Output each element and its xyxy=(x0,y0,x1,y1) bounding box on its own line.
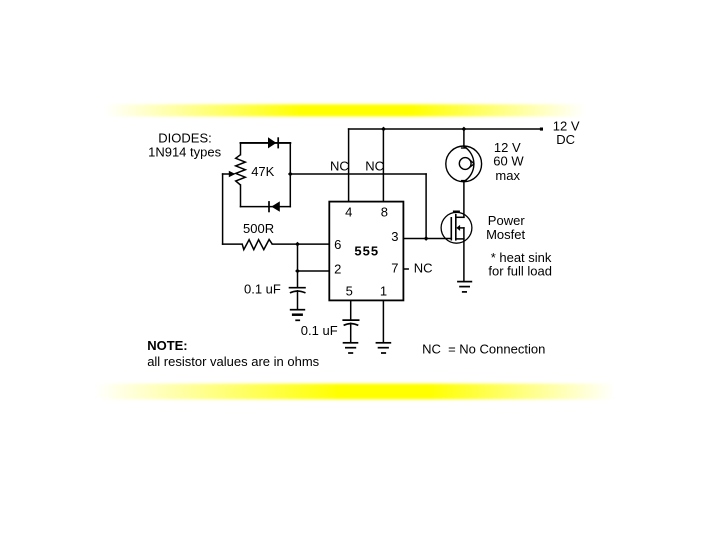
MOSFET drain dash xyxy=(453,211,460,213)
svg-text:4: 4 xyxy=(345,205,352,220)
wire: pin 2 horizontal xyxy=(298,270,330,272)
transistor Q1 power MOSFET xyxy=(441,212,472,243)
wire: pin 7 stub xyxy=(403,268,408,270)
svg-text:for full load: for full load xyxy=(488,263,552,278)
svg-text:3: 3 xyxy=(391,229,398,244)
wire: wiper down to 500R xyxy=(222,174,224,244)
wire: node to pin 2 vertical xyxy=(297,244,299,271)
lamp filament bulb xyxy=(459,158,471,170)
potentiometer R1 47K zigzag body xyxy=(236,155,246,185)
svg-text:Power: Power xyxy=(488,213,526,228)
top yellow divider bar xyxy=(105,104,585,116)
lamp LP1 outer envelope xyxy=(446,146,482,182)
junction dot: pin8/rail xyxy=(381,127,386,132)
wire: MOSFET source internal xyxy=(456,238,464,240)
svg-text:DC: DC xyxy=(556,132,575,147)
svg-text:NOTE:: NOTE: xyxy=(147,338,187,353)
wire: pin 5 down to C2 xyxy=(350,300,352,319)
svg-text:6: 6 xyxy=(334,237,341,252)
svg-text:0.1 uF: 0.1 uF xyxy=(301,323,338,338)
svg-text:7: 7 xyxy=(391,261,398,276)
terminal dot: 12V DC end xyxy=(540,128,543,131)
svg-text:NC: NC xyxy=(414,261,433,276)
capacitor C2 0.1uF plates xyxy=(342,320,359,325)
junction dot: lamp/rail xyxy=(462,127,467,132)
svg-text:500R: 500R xyxy=(243,221,274,236)
svg-text:max: max xyxy=(495,168,520,183)
gate bar xyxy=(450,217,452,241)
lamp inner arc xyxy=(464,146,474,181)
wire: pot bottom horizontal xyxy=(241,206,291,208)
IC U1 555 body xyxy=(329,202,403,301)
svg-text:0.1 uF: 0.1 uF xyxy=(244,281,281,296)
svg-text:1N914 types: 1N914 types xyxy=(148,144,221,159)
svg-text:2: 2 xyxy=(334,261,341,276)
wire: pot top horizontal xyxy=(241,142,291,144)
svg-text:NC = No Connection: NC = No Connection xyxy=(422,341,545,356)
wire: pot bottom lead xyxy=(240,185,242,207)
wire: 500R right to pin 6 xyxy=(272,243,329,245)
wire: C1 bottom lead xyxy=(297,291,299,310)
diode D2 (bottom, 1N914) xyxy=(269,201,280,212)
wire: wiper stub xyxy=(223,173,229,175)
potentiometer wiper arrow xyxy=(229,171,236,177)
bottom yellow divider bar xyxy=(95,384,615,400)
junction dot: pin6 node xyxy=(295,242,300,247)
junction dot: pin3/gate node xyxy=(424,236,429,241)
wire: lamp bottom to MOSFET drain xyxy=(463,182,465,218)
svg-text:5: 5 xyxy=(346,284,353,299)
wire: diodes right vertical xyxy=(289,143,291,207)
wire: wiper corner to 500R left xyxy=(223,243,243,245)
wire: node down to C1 xyxy=(297,271,299,287)
wire: rail to lamp top xyxy=(463,129,465,147)
diode D1 (top, 1N914) xyxy=(268,137,278,148)
svg-text:555: 555 xyxy=(354,244,379,259)
wire: C2 bottom lead xyxy=(350,323,352,342)
capacitor C1 0.1uF plates xyxy=(289,288,306,293)
svg-text:NC: NC xyxy=(365,158,384,173)
lamp terminal ticks xyxy=(461,147,467,149)
junction dot: pin2 node xyxy=(295,269,300,274)
svg-text:NC: NC xyxy=(330,158,349,173)
wire: pot/diodes node to gate column xyxy=(290,173,426,175)
wire: pot top lead xyxy=(240,143,242,155)
svg-text:47K: 47K xyxy=(251,164,274,179)
wire: pin 3 to MOSFET gate xyxy=(403,238,451,240)
MOSFET body arrow xyxy=(456,225,460,231)
wire: MOSFET drain internal xyxy=(456,216,464,218)
wire: pin 4 to rail xyxy=(348,129,350,202)
wire: MOSFET source vertical xyxy=(463,228,465,282)
svg-text:8: 8 xyxy=(381,205,388,220)
wire: pin 8 to rail xyxy=(382,129,384,202)
ground for pin 1 xyxy=(376,343,392,353)
channel bar xyxy=(455,214,457,241)
ground for C1 xyxy=(290,310,305,321)
svg-text:60 W: 60 W xyxy=(493,154,524,169)
wire: +12V top rail xyxy=(349,128,541,130)
svg-text:all resistor values are in ohm: all resistor values are in ohms xyxy=(147,354,319,369)
svg-text:1: 1 xyxy=(380,284,387,299)
resistor 500R zigzag body xyxy=(242,240,272,250)
ground for MOSFET source xyxy=(457,282,472,292)
junction dot: diodes/pot right node xyxy=(288,172,293,177)
ground for C2 xyxy=(343,343,359,353)
wire: MOSFET source arrow line xyxy=(459,227,464,229)
svg-text:Mosfet: Mosfet xyxy=(486,227,525,242)
wire: vertical drop to pin 3 net xyxy=(425,174,427,239)
wire: pin 1 to ground xyxy=(382,300,384,342)
